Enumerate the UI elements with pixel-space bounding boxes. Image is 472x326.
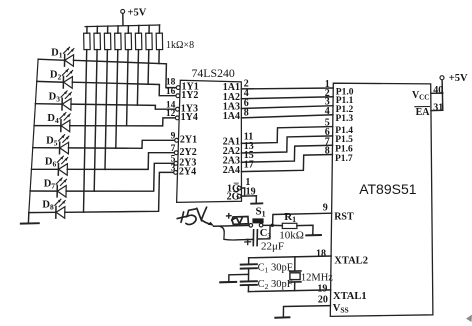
svg-text:8: 8	[244, 107, 249, 118]
pin 18 (1Y1) of U1	[166, 78, 199, 93]
pin 9 (RST) of U2	[323, 203, 354, 223]
svg-text:8: 8	[325, 146, 330, 157]
svg-text:AT89S51: AT89S51	[359, 181, 417, 197]
pin 6 (1A3) of U1	[223, 98, 249, 113]
svg-text:+5V: +5V	[128, 8, 147, 19]
wire: reset node to switch S1	[263, 224, 271, 226]
pin 12 (1Y4) of U1	[166, 109, 198, 123]
wire: ground tap (C1/C2)	[229, 274, 249, 281]
pin 15 (2A3) of U1	[223, 150, 254, 166]
wire: D8 anode to 74LS240 pin (via hook)	[65, 172, 174, 212]
power +5V (resistor bank)	[121, 8, 147, 26]
svg-text:C2 30pF: C2 30pF	[258, 279, 293, 291]
wire: 2G to ground	[241, 196, 256, 203]
wire: R3 to LED D7 anode row	[94, 50, 97, 192]
pin 3 (2Y4) of U1	[171, 164, 196, 178]
wire: D5 cathode to ground bus	[33, 147, 60, 149]
power +5V (MCU)	[440, 73, 468, 84]
LED D8	[42, 199, 65, 218]
svg-text:12: 12	[166, 109, 176, 119]
annotation: pen scribble over electrolytic capacitor	[227, 214, 249, 225]
pin 16 (1Y2) of U1	[166, 87, 199, 101]
wire: D4 cathode to ground bus	[34, 125, 61, 127]
svg-text:XTAL1: XTAL1	[333, 291, 367, 302]
svg-text:2Y4: 2Y4	[179, 167, 196, 178]
svg-text:1Y2: 1Y2	[181, 90, 198, 101]
pin 4 (1A2) of U1	[223, 88, 249, 103]
pin 2 (1A1) of U1	[223, 78, 249, 93]
pin 17 (2A4) of U1	[223, 160, 254, 176]
LED D4	[47, 113, 70, 132]
wire: Vss (pin 20) to ground	[283, 306, 330, 317]
ground (U1 enable pins)	[251, 202, 262, 204]
pin 9 (2Y1) of U1	[171, 132, 197, 146]
svg-text:XTAL2: XTAL2	[334, 256, 368, 267]
resistor R1 10k&#937; (reset pull-down)	[279, 211, 304, 241]
wire: chain top to C1	[248, 258, 250, 264]
pin 18 (XTAL2) of U2	[316, 248, 368, 266]
IC U1 74LS240 buffer	[177, 80, 242, 202]
wire: R1 to ground	[297, 225, 313, 235]
wire: U1 1A2 (pin 4) to U2 P1.1	[241, 97, 333, 99]
pin 5 (P1.4) of U2	[325, 118, 353, 136]
pin 31 (EA&#773;) of U2	[415, 102, 443, 118]
svg-text:1Y4: 1Y4	[181, 112, 198, 123]
wire: D8 cathode to ground bus	[29, 211, 56, 213]
svg-text:2Y1: 2Y1	[180, 134, 197, 145]
wire: D2 anode to 74LS240 pin (via hook)	[72, 82, 176, 96]
wire: U1 2A1 (pin 11) to U2 P1.4	[241, 127, 332, 144]
ground (Vss)	[275, 316, 289, 318]
wire: +5V to switch S1	[214, 224, 250, 227]
svg-text:9: 9	[323, 203, 328, 214]
svg-text:16: 16	[166, 87, 176, 97]
wire: RST (pin 9) to reset node	[273, 213, 332, 225]
ground (LED cathode bus)	[21, 213, 39, 223]
wire: D7 cathode to ground bus	[30, 190, 57, 192]
svg-text:1kΩ×8: 1kΩ×8	[166, 40, 194, 51]
wire: U1 2A3 (pin 15) to U2 P1.6	[241, 145, 332, 162]
pin 2 (P1.1) of U2	[325, 88, 354, 106]
wire: D5 anode to 74LS240 pin (via hook)	[69, 140, 175, 148]
pin 8 (P1.7) of U2	[325, 146, 353, 164]
wire: U1 1A1 (pin 2) to U2 P1.0	[241, 87, 333, 90]
pin 19 (2G&#773;) of U1	[227, 187, 256, 203]
wire: C2 to XTAL1 net	[247, 286, 249, 292]
LED D2	[50, 69, 73, 88]
switch S1 (reset button)	[249, 206, 266, 228]
wire: R2 to LED D8 anode row	[84, 50, 87, 213]
svg-text:18: 18	[316, 248, 326, 259]
svg-text:+5V: +5V	[449, 73, 468, 84]
svg-text:22μF: 22μF	[261, 240, 284, 252]
resistor R3 (1k&#937;, part of 1k&#937;&#215;8 network)	[94, 26, 101, 49]
wire: XTAL2 (pin 18) net	[249, 256, 332, 258]
resistor R7 (1k&#937;, part of 1k&#937;&#215;8 network)	[135, 26, 142, 50]
pin 19 (XTAL1) of U2	[317, 284, 366, 302]
capacitor C2 30pF	[241, 281, 257, 285]
resistor R9 (1k&#937;, part of 1k&#937;&#215;8 network)	[156, 25, 163, 50]
pin 7 (2Y2) of U1	[171, 144, 197, 158]
pin 1 (1G&#773;) of U1	[227, 177, 250, 194]
wire: Vcc (pin 40) to +5V rail	[431, 92, 443, 94]
pin 6 (P1.5) of U2	[325, 127, 353, 145]
LED D5	[46, 135, 69, 154]
wire: +5V to C3 (hand-drawn loop)	[220, 226, 246, 240]
wire: reset node to R1	[274, 224, 282, 226]
annotation: pen mark bottom right	[466, 315, 472, 322]
power +5V (reset circuit, hand-drawn)	[177, 207, 214, 226]
wire: 1G to 2G tie	[241, 188, 245, 196]
ground (C1/C2)	[220, 281, 236, 283]
pin 13 (2A2) of U1	[223, 141, 254, 157]
svg-text:1A4: 1A4	[223, 111, 240, 122]
pin 5 (2Y3) of U1	[171, 155, 197, 169]
resistor R4 (1k&#937;, part of 1k&#937;&#215;8 network)	[104, 26, 111, 50]
wire: D3 cathode to ground bus	[35, 103, 62, 105]
wire: LED cathode bus (slanted)	[29, 59, 38, 213]
pin 1 (P1.0) of U2	[325, 79, 354, 97]
wire: R7 to LED D3 anode row	[137, 50, 138, 106]
capacitor C3 22&#956;F (electrolytic, reset)	[245, 225, 270, 245]
pin 8 (1A4) of U1	[223, 107, 249, 122]
resistor R5 (1k&#937;, part of 1k&#937;&#215;8 network)	[115, 26, 122, 50]
pin 20 (Vss) of U2	[318, 295, 349, 315]
ground (R1)	[306, 234, 321, 236]
pin 40 (Vcc) of U2	[412, 85, 443, 101]
svg-text:31: 31	[433, 102, 443, 113]
wire: D4 anode to 74LS240 pin (via hook)	[70, 118, 176, 126]
wire: C1 to C2 with ground tap	[248, 269, 250, 280]
wire: D1 cathode to ground bus	[38, 59, 65, 60]
wire: U1 1A3 (pin 6) to U2 P1.2	[241, 106, 333, 109]
wire: D7 anode to 74LS240 pin (via hook)	[66, 163, 174, 191]
LED D1	[51, 47, 74, 66]
wire: +5V bus to resistor network	[85, 25, 160, 27]
wire: R6 to LED D4 anode row	[127, 50, 129, 126]
pin 3 (P1.2) of U2	[325, 97, 354, 115]
wire: EA (pin 31) to +5V rail	[431, 109, 442, 111]
wire: D6 cathode to ground bus	[32, 168, 59, 170]
svg-text:2Y2: 2Y2	[180, 147, 197, 158]
svg-text:74LS240: 74LS240	[192, 66, 235, 80]
wire: D6 anode to 74LS240 pin (via hook)	[67, 153, 174, 170]
svg-text:9: 9	[171, 132, 176, 142]
pin 11 (2A1) of U1	[223, 131, 253, 147]
wire: R5 to LED D5 anode row	[116, 50, 118, 149]
wire: +5V rail (MCU)	[441, 80, 444, 111]
svg-text:19: 19	[317, 284, 327, 295]
IC U2 AT89S51 microcontroller	[330, 83, 433, 316]
wire: D2 cathode to ground bus	[37, 80, 64, 83]
svg-text:2G̅: 2G̅	[227, 191, 240, 202]
LED D7	[44, 178, 67, 197]
svg-text:7: 7	[171, 144, 176, 154]
LED D6	[45, 156, 68, 175]
wire: U1 1A4 (pin 8) to U2 P1.3	[241, 115, 333, 118]
svg-text:17: 17	[244, 160, 254, 171]
svg-text:P1.3: P1.3	[336, 114, 354, 124]
junction: reset node	[271, 224, 274, 227]
pin 14 (1Y3) of U1	[166, 100, 198, 114]
wire: U1 2A2 (pin 13) to U2 P1.5	[241, 136, 332, 153]
svg-text:VSS: VSS	[333, 303, 349, 315]
svg-text:RST: RST	[334, 211, 354, 222]
capacitor C1 30pF	[241, 264, 257, 268]
svg-text:4: 4	[325, 106, 330, 117]
wire: D3 anode to 74LS240 pin (via hook)	[71, 104, 176, 109]
resistor R2 (1k&#937;, part of 1k&#937;&#215;8 network)	[84, 27, 91, 50]
wire: D1 anode to 74LS240 pin (via hook)	[74, 60, 177, 87]
svg-text:3: 3	[171, 164, 176, 174]
wire: R8 to LED D2 anode row	[147, 50, 150, 85]
pin 7 (P1.6) of U2	[325, 136, 353, 154]
wire: U1 2A4 (pin 17) to U2 P1.7	[242, 155, 333, 172]
wire: XTAL1 (pin 19) net	[248, 290, 330, 292]
svg-text:P1.7: P1.7	[335, 154, 353, 164]
svg-text:2A4: 2A4	[223, 165, 240, 176]
svg-text:20: 20	[318, 295, 328, 306]
LED D3	[49, 91, 72, 110]
svg-text:C1 30pF: C1 30pF	[258, 263, 293, 275]
svg-text:EA: EA	[416, 107, 431, 118]
resistor R6 (1k&#937;, part of 1k&#937;&#215;8 network)	[125, 26, 132, 50]
svg-text:12MHz: 12MHz	[301, 273, 333, 284]
pin 4 (P1.3) of U2	[325, 106, 354, 124]
wire: R9 to LED D1 anode row	[158, 50, 160, 64]
resistor R8 (1k&#937;, part of 1k&#937;&#215;8 network)	[146, 25, 153, 49]
svg-text:10kΩ: 10kΩ	[279, 230, 304, 242]
crystal Y1 12MHz	[290, 257, 301, 291]
wire: R4 to LED D6 anode row	[105, 50, 107, 170]
